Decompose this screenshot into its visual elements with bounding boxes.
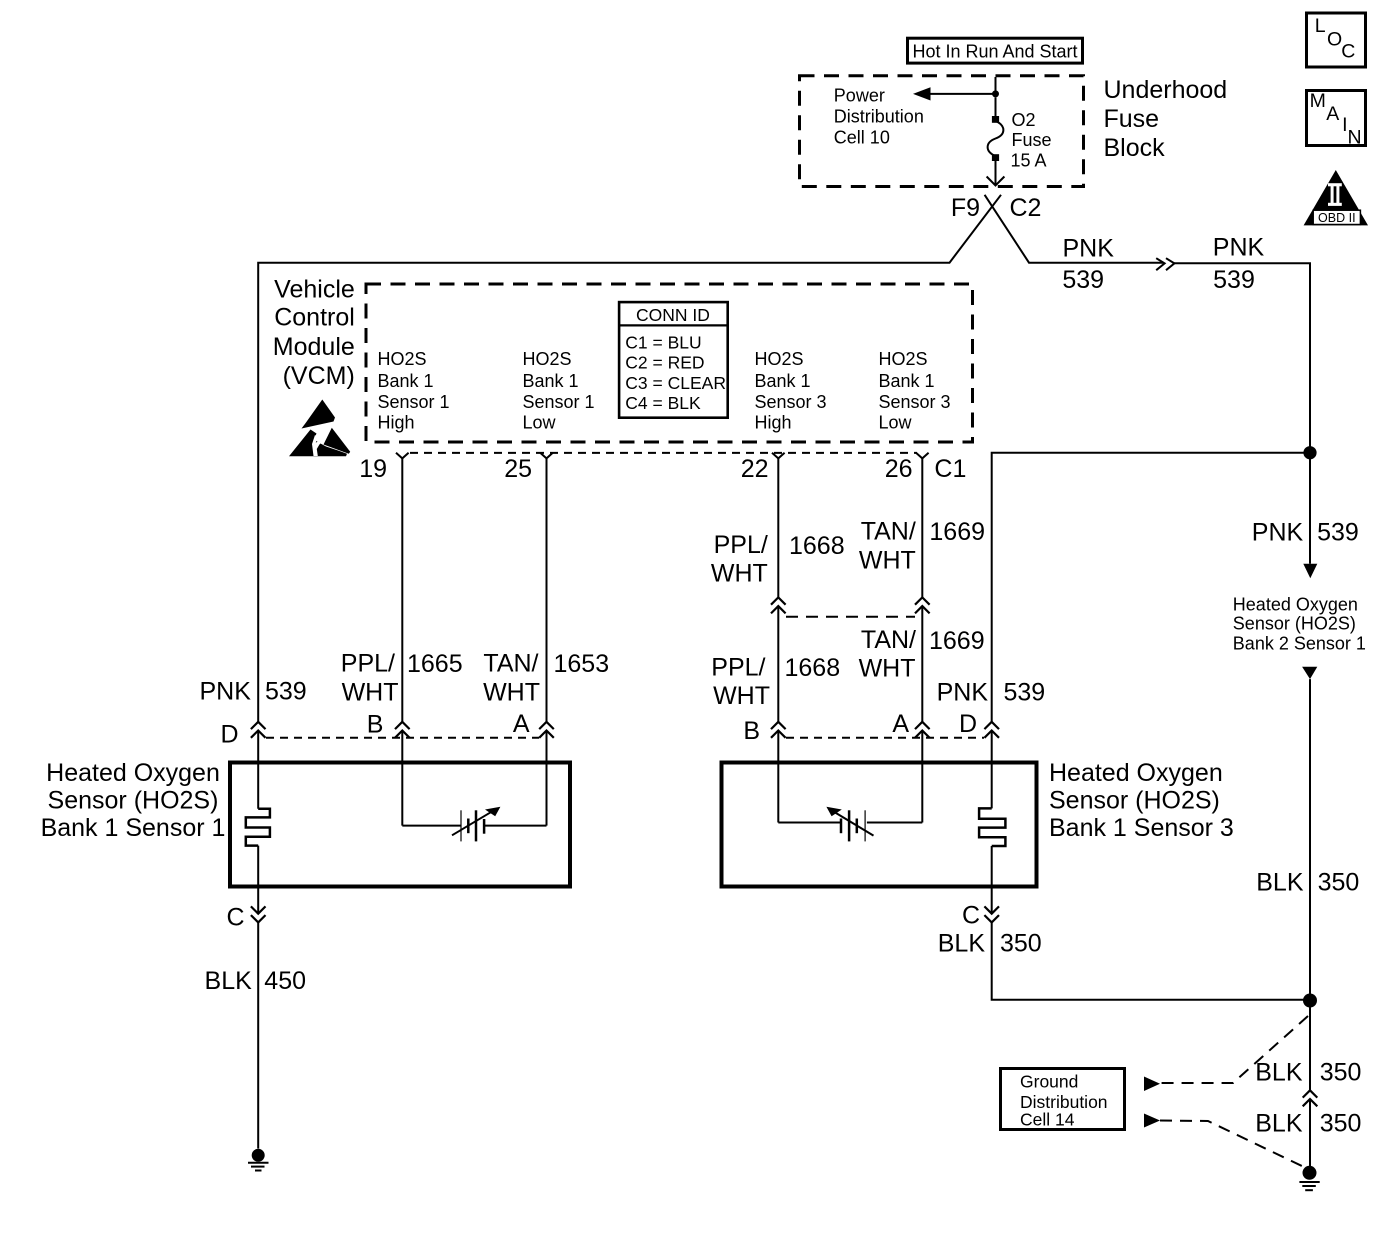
svg-text:WHT: WHT xyxy=(711,559,768,587)
svg-text:350: 350 xyxy=(1000,930,1042,958)
svg-text:C: C xyxy=(962,902,980,930)
svg-text:Cell 14: Cell 14 xyxy=(1020,1110,1075,1130)
svg-text:WHT: WHT xyxy=(859,654,916,682)
svg-text:C: C xyxy=(227,903,245,931)
svg-text:WHT: WHT xyxy=(859,547,916,575)
svg-text:539: 539 xyxy=(1062,266,1104,294)
svg-text:Low: Low xyxy=(879,413,913,433)
svg-text:Sensor 3: Sensor 3 xyxy=(879,392,951,412)
svg-text:Bank 1 Sensor 3: Bank 1 Sensor 3 xyxy=(1049,814,1234,842)
svg-text:WHT: WHT xyxy=(342,679,399,707)
svg-text:C3 = CLEAR: C3 = CLEAR xyxy=(625,373,726,393)
svg-text:1669: 1669 xyxy=(929,627,985,655)
svg-text:Sensor 3: Sensor 3 xyxy=(755,392,827,412)
svg-text:Low: Low xyxy=(523,413,557,433)
svg-text:1669: 1669 xyxy=(929,518,985,546)
svg-text:Distribution: Distribution xyxy=(834,107,924,127)
svg-text:PNK: PNK xyxy=(1062,234,1114,262)
svg-text:Sensor (HO2S): Sensor (HO2S) xyxy=(1049,786,1220,814)
svg-text:Control: Control xyxy=(274,303,355,331)
svg-text:350: 350 xyxy=(1320,1109,1362,1137)
svg-text:TAN/: TAN/ xyxy=(861,626,916,654)
svg-text:High: High xyxy=(378,413,415,433)
svg-text:C1: C1 xyxy=(934,455,966,483)
svg-text:1668: 1668 xyxy=(789,532,845,560)
svg-text:Bank 1 Sensor 1: Bank 1 Sensor 1 xyxy=(41,814,226,842)
svg-text:CONN ID: CONN ID xyxy=(636,305,710,325)
svg-text:PNK: PNK xyxy=(1213,234,1265,262)
svg-text:High: High xyxy=(755,413,792,433)
svg-text:PPL/: PPL/ xyxy=(714,531,768,559)
svg-text:Module: Module xyxy=(273,333,355,361)
svg-text:Block: Block xyxy=(1104,134,1166,162)
svg-text:HO2S: HO2S xyxy=(378,349,427,369)
svg-text:PNK: PNK xyxy=(937,678,989,706)
svg-text:Cell 10: Cell 10 xyxy=(834,127,890,147)
svg-text:Bank 2 Sensor 1: Bank 2 Sensor 1 xyxy=(1233,633,1366,653)
svg-text:O: O xyxy=(1327,28,1342,50)
svg-text:Bank 1: Bank 1 xyxy=(755,371,811,391)
svg-text:Heated Oxygen: Heated Oxygen xyxy=(1233,594,1358,614)
svg-text:TAN/: TAN/ xyxy=(483,650,538,678)
svg-text:Sensor (HO2S): Sensor (HO2S) xyxy=(1233,614,1356,634)
svg-text:O2: O2 xyxy=(1012,110,1036,130)
svg-text:Vehicle: Vehicle xyxy=(274,275,355,303)
svg-text:Bank 1: Bank 1 xyxy=(523,371,579,391)
svg-text:B: B xyxy=(367,711,384,739)
svg-text:1668: 1668 xyxy=(785,654,841,682)
svg-text:C2 = RED: C2 = RED xyxy=(625,353,704,373)
svg-text:25: 25 xyxy=(504,455,532,483)
svg-text:WHT: WHT xyxy=(483,679,540,707)
svg-text:PNK: PNK xyxy=(199,678,251,706)
svg-text:TAN/: TAN/ xyxy=(861,518,916,546)
svg-text:HO2S: HO2S xyxy=(523,349,572,369)
svg-text:L: L xyxy=(1315,15,1326,37)
svg-text:BLK: BLK xyxy=(1255,1109,1303,1137)
svg-text:OBD II: OBD II xyxy=(1318,211,1356,225)
svg-text:Bank 1: Bank 1 xyxy=(378,371,434,391)
svg-text:C4 = BLK: C4 = BLK xyxy=(625,393,701,413)
svg-text:Heated Oxygen: Heated Oxygen xyxy=(46,759,220,787)
svg-text:C2: C2 xyxy=(1010,194,1042,222)
svg-text:19: 19 xyxy=(359,455,387,483)
svg-text:PPL/: PPL/ xyxy=(711,653,765,681)
svg-text:26: 26 xyxy=(885,455,913,483)
svg-text:C1 = BLU: C1 = BLU xyxy=(625,333,701,353)
svg-text:15 A: 15 A xyxy=(1011,150,1047,170)
svg-text:Sensor 1: Sensor 1 xyxy=(523,392,595,412)
svg-text:HO2S: HO2S xyxy=(755,349,804,369)
svg-text:A: A xyxy=(892,710,909,738)
svg-text:Hot In Run And Start: Hot In Run And Start xyxy=(912,42,1077,62)
svg-text:BLK: BLK xyxy=(205,967,253,995)
svg-text:539: 539 xyxy=(1004,678,1046,706)
svg-text:M: M xyxy=(1310,90,1326,112)
svg-text:A: A xyxy=(1326,103,1339,125)
svg-text:WHT: WHT xyxy=(713,682,770,710)
svg-text:BLK: BLK xyxy=(1255,1058,1303,1086)
svg-text:BLK: BLK xyxy=(938,930,986,958)
svg-text:D: D xyxy=(221,721,239,749)
svg-text:350: 350 xyxy=(1318,869,1360,897)
svg-text:1653: 1653 xyxy=(554,650,610,678)
svg-text:HO2S: HO2S xyxy=(879,349,928,369)
svg-text:Underhood: Underhood xyxy=(1104,76,1228,104)
svg-text:Heated Oxygen: Heated Oxygen xyxy=(1049,759,1223,787)
svg-text:D: D xyxy=(959,710,977,738)
svg-text:Sensor (HO2S): Sensor (HO2S) xyxy=(48,786,219,814)
svg-text:539: 539 xyxy=(1213,266,1255,294)
svg-text:22: 22 xyxy=(741,455,769,483)
svg-text:N: N xyxy=(1348,126,1362,148)
svg-text:Sensor 1: Sensor 1 xyxy=(378,392,450,412)
svg-text:C: C xyxy=(1341,40,1355,62)
svg-text:539: 539 xyxy=(1317,519,1359,547)
svg-text:F9: F9 xyxy=(951,194,980,222)
svg-text:(VCM): (VCM) xyxy=(283,362,355,390)
svg-text:PNK: PNK xyxy=(1252,519,1304,547)
svg-text:1665: 1665 xyxy=(407,650,463,678)
svg-text:A: A xyxy=(513,710,530,738)
svg-text:539: 539 xyxy=(265,678,307,706)
svg-text:Power: Power xyxy=(834,86,885,106)
svg-text:BLK: BLK xyxy=(1256,869,1304,897)
svg-text:PPL/: PPL/ xyxy=(341,650,395,678)
svg-text:Bank 1: Bank 1 xyxy=(879,371,935,391)
svg-text:450: 450 xyxy=(264,967,306,995)
svg-text:B: B xyxy=(743,717,760,745)
svg-text:Fuse: Fuse xyxy=(1012,130,1052,150)
svg-text:Fuse: Fuse xyxy=(1104,105,1160,133)
svg-text:Ground: Ground xyxy=(1020,1072,1078,1092)
svg-text:350: 350 xyxy=(1320,1058,1362,1086)
